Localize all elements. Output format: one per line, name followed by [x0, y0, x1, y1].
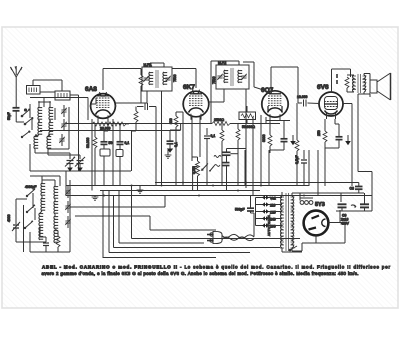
resistor R12 IF cathode — [220, 124, 224, 187]
svg-text:30.000: 30.000 — [86, 138, 90, 148]
rectifier tube 5Y3 — [304, 211, 329, 240]
capacitor C2 6A8 cathode — [100, 131, 110, 186]
power transformer T1 core — [280, 193, 295, 251]
svg-text:avere 2 gamme d'onda, e la fin: avere 2 gamme d'onda, e la finale 6K8 G … — [42, 271, 359, 276]
resistor R5 screen dropper — [212, 122, 230, 126]
link coil box — [40, 91, 79, 100]
filter choke arrow — [351, 205, 356, 208]
svg-text:0,5M: 0,5M — [192, 166, 196, 174]
wire speaker return down right edge — [358, 94, 372, 172]
capacitor C11 AF coupling — [223, 155, 230, 190]
wire osc block frame — [16, 176, 70, 252]
svg-text:M.F.2: M.F.2 — [218, 61, 226, 65]
variable capacitor CV1 tuning — [65, 153, 75, 171]
wire mid block vertical — [48, 107, 69, 149]
svg-text:10.000: 10.000 — [297, 95, 307, 99]
svg-text:5Y3: 5Y3 — [315, 202, 325, 208]
ground 6Q7 cathode — [290, 135, 296, 145]
mains plug — [207, 231, 222, 243]
oscillator coil L14 — [54, 230, 58, 243]
capacitor C10 diode coupling — [223, 149, 247, 156]
capacitor C13 tone across primary — [336, 74, 338, 84]
capacitor C14 6Q7 cathode — [270, 121, 288, 151]
band switch S2b — [26, 205, 35, 213]
wire IFT1 to 6K7 grid cap — [172, 69, 196, 89]
wire 6K7 plate to IFT2 — [209, 89, 224, 102]
filter capacitor C9a — [338, 204, 347, 211]
capacitor C17 line filter 500pF — [247, 196, 254, 237]
antenna coupling box — [27, 86, 41, 95]
svg-text:AUTOTRASF.: AUTOTRASF. — [267, 214, 271, 236]
svg-text:M.F.1: M.F.1 — [144, 63, 152, 67]
wire 6K7 pin drops — [183, 112, 200, 186]
wire IFT2 to 6Q7 grid cap — [243, 62, 265, 91]
antenna coil L2 — [38, 122, 42, 135]
wire block top feeders — [30, 80, 88, 171]
RF coil L6 — [47, 136, 51, 149]
IF transformer IFT2 — [216, 61, 249, 89]
trimmer CT6 osc — [65, 216, 70, 228]
svg-text:6K7: 6K7 — [183, 84, 195, 91]
svg-text:7500: 7500 — [173, 74, 177, 82]
wire HT secondary top — [300, 193, 364, 202]
wire rectifier connections — [302, 210, 345, 251]
wire grid return rail — [40, 130, 181, 132]
svg-text:C8: C8 — [350, 187, 354, 191]
oscillator coil L10 — [54, 186, 58, 199]
tube 6A8 — [90, 92, 117, 121]
ground bus tap — [137, 186, 144, 193]
antenna — [11, 66, 23, 108]
svg-text:ABEL - Mod. CANARINO o mod. FR: ABEL - Mod. CANARINO o mod. FRINGUELLO I… — [42, 264, 391, 269]
trimmer CT5 osc — [65, 201, 70, 213]
wire 6A8 grid cap riser — [103, 69, 141, 91]
svg-text:6Q7: 6Q7 — [261, 87, 274, 94]
capacitor C6 osc tracking — [43, 237, 49, 252]
trimmer CT4 osc — [65, 186, 70, 198]
wire 6V6 drops — [325, 104, 352, 187]
svg-text:450V: 450V — [341, 222, 350, 226]
wire AVC rail — [66, 123, 280, 125]
trimmer CT1 — [61, 105, 66, 117]
capacitor C7 6K7 cathode — [204, 128, 210, 186]
resistor R14 bias — [93, 124, 97, 186]
power transformer T1 secondary — [292, 193, 302, 251]
ground gang — [67, 166, 83, 172]
svg-text:6V6: 6V6 — [317, 84, 329, 91]
svg-text:0,1: 0,1 — [125, 141, 130, 145]
resistor R4 osc — [56, 231, 60, 252]
tube 6V6 — [318, 92, 344, 119]
antenna coil L3 — [34, 136, 38, 149]
wire 6A8 cathode drops — [92, 118, 156, 191]
svg-text:20.000: 20.000 — [100, 127, 110, 131]
capacitor C4 oscillator grid — [137, 103, 156, 120]
tube 6Q7 — [261, 89, 289, 120]
oscillator padder capacitor C5 — [12, 218, 20, 242]
svg-text:0,5μF: 0,5μF — [295, 155, 299, 164]
wire ground rail — [100, 190, 260, 192]
wire HT bus upper — [66, 185, 309, 187]
band switch S2c — [24, 221, 33, 229]
RF choke squiggle — [210, 156, 221, 171]
svg-text:250: 250 — [317, 130, 321, 136]
svg-text:500pF: 500pF — [235, 208, 245, 212]
svg-text:110: 110 — [270, 204, 276, 208]
svg-text:50pF: 50pF — [7, 112, 11, 120]
capacitor C3 screen bypass — [116, 124, 124, 186]
svg-text:3000: 3000 — [262, 134, 266, 142]
capacitor C8 — [355, 183, 363, 194]
twisted mains cord — [222, 234, 254, 240]
wire speaker field feed — [331, 182, 359, 184]
resistor R11 boxed grid leak — [239, 106, 256, 124]
oscillator coil L7 — [41, 183, 45, 196]
resistor R9 6V6 cathode — [323, 119, 327, 152]
svg-text:125: 125 — [270, 211, 276, 215]
wire HT bus lower — [66, 171, 372, 196]
filter capacitor C9b — [360, 193, 369, 211]
antenna coil L1 — [38, 107, 42, 120]
wire left nested return 2 — [114, 196, 281, 248]
oscillator coil L8 — [41, 198, 45, 211]
oscillator coil L13 — [39, 227, 43, 240]
junction dots on rails — [103, 182, 305, 197]
wire heater run B — [119, 191, 204, 244]
svg-text:50: 50 — [109, 141, 113, 145]
voltage selector taps — [256, 195, 283, 227]
junction dots coil taps — [35, 101, 51, 136]
power transformer T1 primary — [281, 192, 282, 252]
wire IFT2 screen drop — [211, 61, 225, 124]
wire gang ground bus — [30, 144, 131, 171]
capacitor C12 coupling — [298, 100, 319, 107]
oscillator coil L12 — [54, 216, 58, 229]
capacitor C15 6V6 cathode — [325, 119, 343, 148]
svg-text:6A8: 6A8 — [85, 86, 97, 93]
wire coil interconnects — [30, 102, 80, 155]
wire 6V6 plate top loop — [332, 69, 351, 92]
label C9 value — [341, 214, 350, 226]
wire filter bottom bus — [336, 172, 372, 212]
oscillator coil L9 — [39, 213, 43, 226]
variable capacitor CV2 tuning — [75, 155, 85, 171]
band switch S1a — [21, 109, 30, 117]
ground lower bus — [92, 196, 99, 200]
svg-text:Volt: Volt — [270, 197, 276, 201]
label selector voltages — [270, 197, 276, 229]
wire heater run A — [109, 191, 250, 253]
svg-text:4000: 4000 — [7, 214, 11, 222]
tube 6K7 — [182, 90, 210, 120]
resistor R13 AVC divider — [236, 124, 240, 187]
output transformer T2 — [345, 74, 370, 95]
wire block vertical feeders — [44, 98, 96, 120]
resistor R8 6Q7 cathode — [266, 117, 290, 153]
wire left nested return 1 — [103, 190, 216, 258]
band switch S1c — [21, 131, 30, 138]
volume potentiometer P1 — [193, 157, 211, 191]
capacitor C1 antenna — [13, 108, 28, 122]
band switch S2a — [26, 189, 35, 197]
resistor R3 grid leak — [139, 75, 143, 103]
resistor R2 6A8 cathode — [92, 119, 129, 126]
loudspeaker LS — [370, 73, 391, 100]
resistor R6 6K7 cathode — [174, 112, 183, 186]
svg-text:0,1: 0,1 — [211, 134, 216, 138]
RF coil L4 — [49, 107, 53, 120]
IF transformer IFT1 — [142, 63, 172, 91]
wire 6A8 plate to IFT1 — [116, 91, 148, 103]
svg-text:4000pF: 4000pF — [25, 185, 37, 189]
resistor R10 mixer grid — [132, 107, 139, 172]
svg-text:2500Ω: 2500Ω — [214, 118, 225, 122]
trimmer CT3 — [59, 134, 64, 146]
wire 6Q7 plate top loop — [271, 67, 298, 103]
wire osc to mixer diagonal — [70, 196, 216, 230]
oscillator coil L11 — [54, 201, 58, 214]
svg-text:7500: 7500 — [212, 76, 216, 84]
wire AVC return rail — [155, 182, 331, 184]
wire bus risers right — [309, 150, 318, 196]
wire IFT1 secondary down — [161, 91, 163, 186]
ground pot return — [165, 150, 172, 158]
heater winding pilot taps — [300, 193, 313, 204]
wire 6Q7 drops — [245, 115, 269, 196]
capacitor C16 right bypass — [301, 150, 307, 186]
wire mains switch — [282, 246, 302, 252]
ground 6V6 cathode — [345, 135, 351, 145]
wire left nested return 3 — [132, 186, 301, 239]
wire pot drops — [192, 157, 198, 161]
trimmer CT2 — [61, 119, 66, 131]
RF coil L5 — [49, 122, 53, 135]
resistor R15 6V6 grid leak — [295, 103, 299, 186]
capacitor C18 AVC — [167, 124, 181, 153]
svg-text:300: 300 — [169, 118, 173, 124]
wire IFT2 secondary down — [245, 89, 247, 188]
band switch S1b — [24, 118, 33, 125]
